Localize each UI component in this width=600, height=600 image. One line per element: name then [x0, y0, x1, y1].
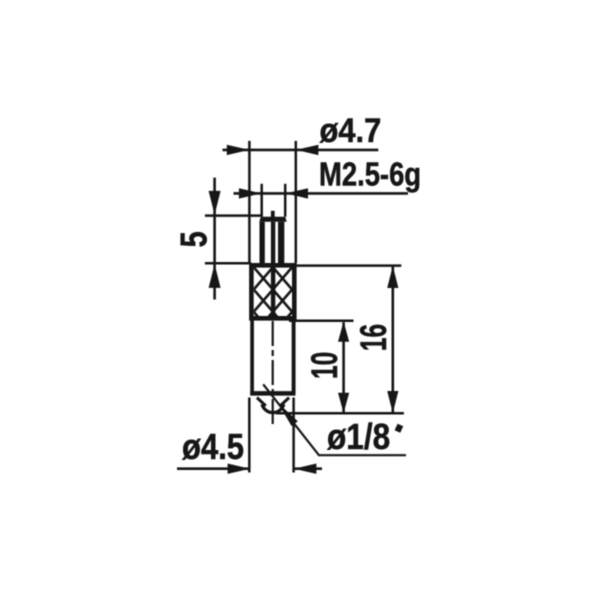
dimension od4.5: right dimension line — [294, 467, 322, 470]
contact point stud: center-line nub above cap — [271, 211, 275, 217]
dimension M2.5-6g: left extension line — [260, 184, 263, 217]
svg-text:ø4.5: ø4.5 — [182, 427, 244, 468]
dimension 10 (cylinder length): lower arrowhead — [338, 393, 349, 413]
dimension 10 (cylinder length): upper arrowhead — [338, 322, 349, 342]
dimension 16 (body length): top extension line — [293, 264, 401, 267]
dimension od4.5: right extension line — [292, 398, 295, 473]
dimension M2.5-6g: dimension line — [234, 192, 409, 195]
svg-text:10: 10 — [304, 352, 345, 379]
dimension 5 (thread length): lower arrowhead — [209, 264, 221, 288]
contact point stud: thread left flank line — [260, 222, 265, 264]
svg-text:16: 16 — [353, 324, 394, 351]
contact point stud: top cap of M2.5 thread — [259, 217, 286, 222]
svg-text:ø1/8: ø1/8 — [327, 417, 390, 457]
knurled grip: border rectangle — [251, 265, 294, 318]
dimension 16 (body length): dimension line — [391, 266, 394, 413]
dimension od4.7: dimension line — [223, 149, 379, 152]
tip: spherical contact arc r=1/16 inch — [262, 404, 284, 412]
dimension od4.5: left extension line — [248, 398, 251, 473]
dimension 5 (thread length): upper arrowhead — [209, 191, 221, 215]
dimension 5 (thread length): bottom extension line — [205, 262, 251, 265]
dimension od4.5: left dimension line — [177, 467, 250, 470]
svg-text:M2.5-6g: M2.5-6g — [319, 156, 421, 193]
shared bottom extension line at tip for 10 and 16 — [276, 412, 404, 415]
dimension M2.5-6g: left arrowhead — [239, 188, 261, 198]
dimension od4.7: left extension line — [248, 141, 251, 263]
leader od1/8 inch: arrowhead pointing at ball surface — [278, 403, 298, 426]
leader od1/8 inch: inch double-prime tick — [397, 425, 400, 432]
dimension 5 (thread length): dimension line — [213, 178, 216, 300]
contact point stud: thread right flank line — [278, 222, 284, 264]
dimension od4.5: left arrowhead — [228, 464, 250, 474]
tip: shoulder line above spherical end — [250, 391, 295, 396]
tip: right chamfer line — [280, 398, 289, 406]
dimension od4.7: left arrowhead — [227, 145, 249, 155]
leader od1/8 inch: leader line with bend and underline — [263, 384, 406, 455]
dimension 5 (thread length): top extension line — [205, 214, 261, 217]
dimension 10 (cylinder length): top extension line — [289, 319, 354, 322]
tip: left chamfer line — [257, 398, 266, 406]
dimension M2.5-6g: right extension line — [284, 184, 287, 217]
dimension 16 (body length): upper arrowhead — [387, 266, 398, 288]
dimension 10 (cylinder length): dimension line — [342, 322, 345, 413]
dimension 16 (body length): lower arrowhead — [387, 391, 398, 413]
contact point stud: thread center line — [271, 222, 275, 264]
knurled grip: center line through knurl — [271, 263, 275, 320]
body cylinder: right edge — [292, 318, 296, 393]
dimension od4.7: right extension line — [295, 141, 298, 263]
dimension od4.7: right arrowhead — [296, 145, 318, 155]
body cylinder: dashed axis center line — [272, 321, 274, 427]
dimension M2.5-6g: right arrowhead — [286, 188, 308, 198]
body cylinder: left edge — [250, 318, 254, 393]
svg-text:ø4.7: ø4.7 — [320, 110, 382, 149]
svg-text:5: 5 — [174, 231, 215, 247]
knurled grip: cross-hatch diagonals — [254, 245, 292, 357]
dimension od4.5: right arrowhead — [294, 464, 316, 474]
